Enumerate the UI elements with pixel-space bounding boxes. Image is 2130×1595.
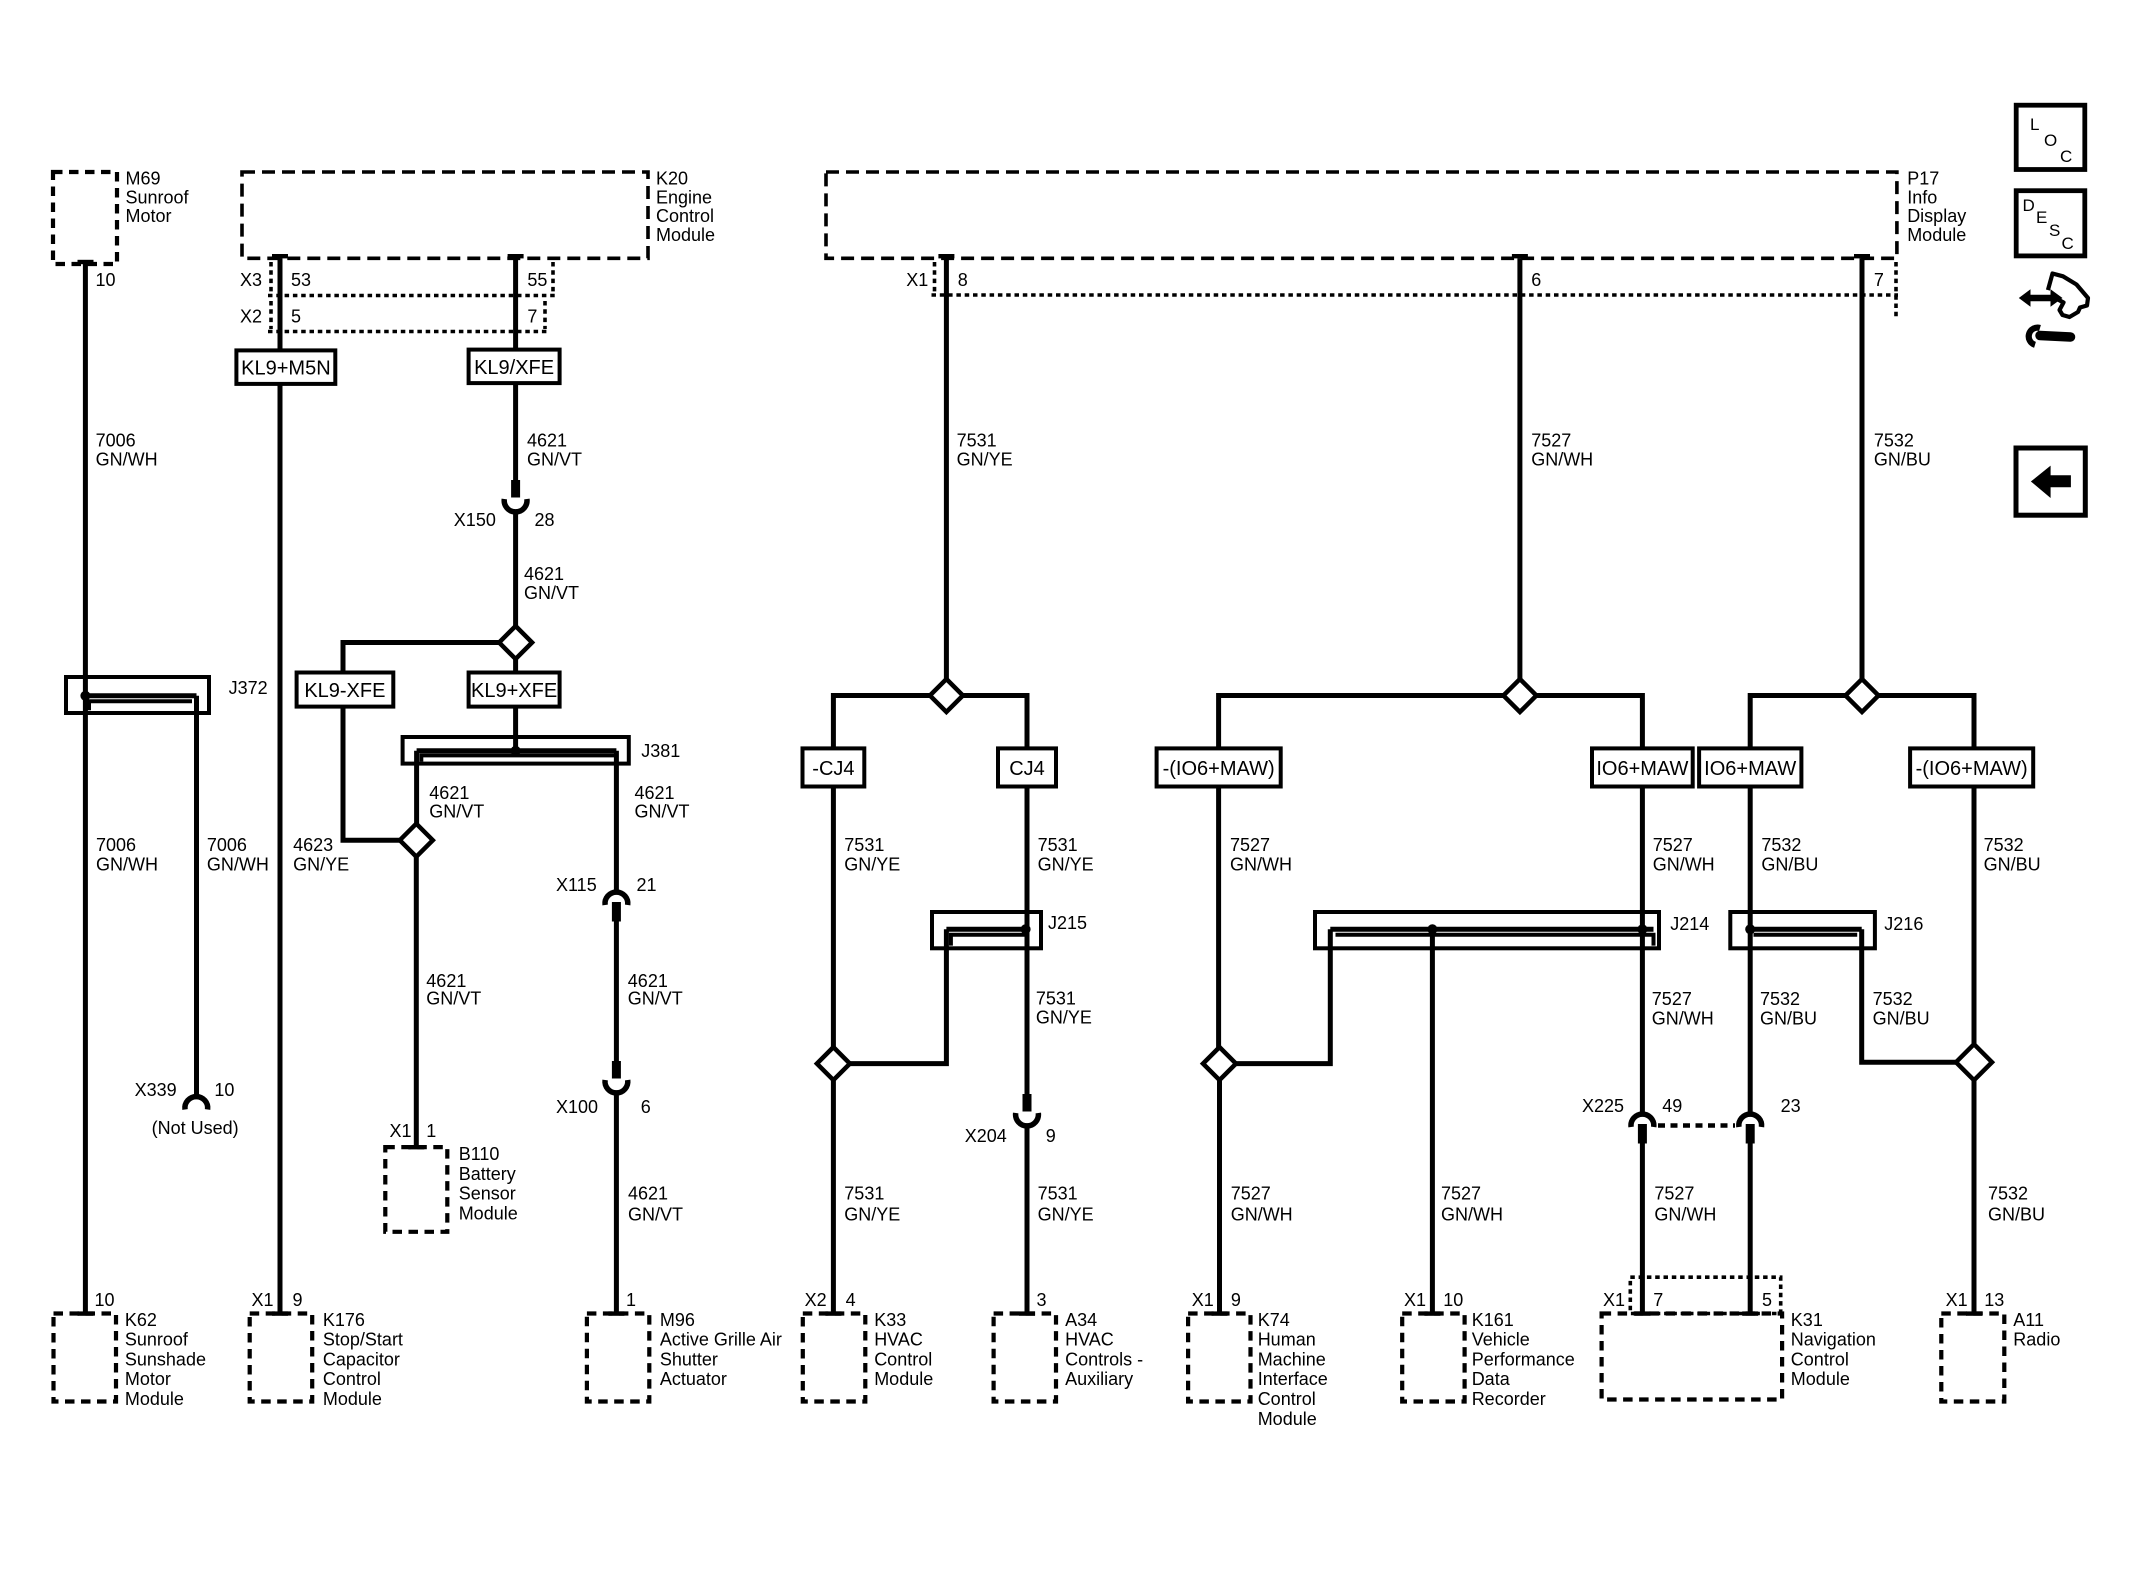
wire label 7531 GN/YE (below J215)	[1036, 989, 1092, 1028]
junction diamond above A11	[1956, 1044, 1992, 1080]
svg-text:Sunroof: Sunroof	[126, 187, 190, 207]
svg-text:6: 6	[1531, 270, 1541, 290]
wire label 7527 GN/WH (left)	[1230, 835, 1292, 875]
pin X1 7 of K31	[1603, 1290, 1663, 1310]
svg-text:GN/BU: GN/BU	[1874, 450, 1931, 470]
svg-text:4623: 4623	[293, 835, 333, 855]
wire label 7531 GN/YE (to K33)	[844, 1184, 900, 1225]
svg-text:7532: 7532	[1760, 989, 1800, 1009]
svg-text:GN/VT: GN/VT	[429, 802, 484, 822]
splice connector J372	[66, 677, 268, 713]
svg-text:Battery: Battery	[459, 1164, 516, 1184]
svg-text:KL9+XFE: KL9+XFE	[471, 680, 557, 702]
svg-text:K161: K161	[1472, 1310, 1514, 1330]
svg-text:K176: K176	[323, 1310, 365, 1330]
svg-text:B110: B110	[459, 1144, 500, 1164]
wire label 7006 GN/WH (upper)	[96, 431, 158, 470]
svg-text:K31: K31	[1791, 1310, 1823, 1330]
svg-text:X100: X100	[556, 1097, 598, 1117]
wire label 7531 GN/YE (right)	[1038, 835, 1094, 875]
svg-text:7532: 7532	[1873, 989, 1913, 1009]
connector X225 pin 23	[1739, 1096, 1801, 1144]
net label KL9+XFE	[469, 673, 560, 707]
svg-text:1: 1	[426, 1121, 436, 1141]
connector X115 pin 21	[556, 875, 657, 922]
svg-text:49: 49	[1662, 1096, 1682, 1116]
svg-text:13: 13	[1984, 1290, 2004, 1310]
svg-text:4: 4	[846, 1290, 856, 1310]
svg-text:Actuator: Actuator	[660, 1369, 727, 1389]
wire 4621 GN/VT from X100 to M96	[614, 1092, 619, 1314]
svg-text:Shutter: Shutter	[660, 1349, 718, 1369]
net label KL9+M5N	[236, 350, 335, 384]
module P17 Info Display Module	[826, 169, 1966, 259]
wire label 7532 GN/BU (pin 7)	[1874, 431, 1931, 470]
module M69 Sunroof Motor	[53, 169, 190, 265]
wire label 7532 GN/BU (below J216 left)	[1760, 989, 1817, 1029]
svg-text:Stop/Start: Stop/Start	[323, 1330, 403, 1350]
wire label 7532 GN/BU (above J216)	[1761, 835, 1818, 875]
svg-text:Control: Control	[1791, 1349, 1849, 1369]
svg-text:M69: M69	[126, 169, 161, 189]
svg-text:Motor: Motor	[126, 206, 172, 226]
connector X1 dotted outline on P17	[932, 262, 1899, 318]
icon LOC button	[2016, 105, 2085, 169]
icon DESC button	[2016, 191, 2085, 256]
wire from 7531 diamond to -CJ4	[833, 696, 930, 749]
svg-text:7532: 7532	[1874, 431, 1914, 451]
wire from K20 pin 55 to net KL9/XFE	[513, 258, 518, 349]
svg-text:X3: X3	[240, 270, 262, 290]
module K74 Human Machine Interface Control Module	[1188, 1310, 1328, 1429]
net label IO6+MAW left	[1592, 748, 1693, 786]
wire label 7532 GN/BU (J216 exit)	[1873, 989, 1930, 1029]
svg-text:A11: A11	[2013, 1310, 2044, 1330]
svg-text:1: 1	[626, 1290, 636, 1310]
svg-text:X1: X1	[1192, 1290, 1214, 1310]
wire label 7531 GN/YE (left)	[844, 835, 900, 875]
pin X1 8 of P17	[906, 270, 967, 290]
svg-text:L: L	[2030, 115, 2039, 134]
splice connector J215	[932, 912, 1087, 948]
svg-text:J214: J214	[1670, 914, 1709, 934]
svg-text:X150: X150	[454, 510, 496, 530]
svg-text:Auxiliary: Auxiliary	[1065, 1369, 1133, 1389]
svg-text:K74: K74	[1258, 1310, 1290, 1330]
svg-text:GN/WH: GN/WH	[1652, 1009, 1714, 1029]
svg-text:Human: Human	[1258, 1330, 1316, 1350]
wire 7532 GN/BU from P17 pin 7 to diamond	[1860, 258, 1865, 680]
svg-text:J381: J381	[641, 741, 680, 761]
wire label 4621 GN/VT (to M96)	[628, 1184, 683, 1225]
connector X150 pin 28	[454, 480, 555, 530]
wire 4621 GN/VT from X115 to X100	[614, 921, 619, 1063]
wire label 7532 GN/BU (right)	[1984, 835, 2041, 875]
svg-text:GN/WH: GN/WH	[96, 855, 158, 875]
wire label 7527 GN/WH (to K31)	[1654, 1184, 1716, 1225]
wire from 7531 diamond to CJ4	[963, 696, 1027, 749]
svg-text:7006: 7006	[207, 835, 247, 855]
connector X339 pin 10 (not used)	[135, 1080, 239, 1138]
wire 7527 GN/WH from diamond to K74	[1217, 1080, 1222, 1313]
connector X204 pin 9	[965, 1094, 1056, 1146]
pin X3 53 of K20	[240, 270, 311, 290]
svg-text:X204: X204	[965, 1126, 1007, 1146]
icon connector-repair (double arrow, plug outline, wrench)	[2019, 274, 2088, 345]
svg-text:Display: Display	[1907, 206, 1966, 226]
svg-text:Machine: Machine	[1258, 1349, 1326, 1369]
pin X2 5 of K20	[240, 307, 301, 327]
svg-text:55: 55	[527, 270, 547, 290]
svg-text:Module: Module	[125, 1389, 184, 1409]
wire 7531 GN/YE from CJ4 through J215 to X204	[1025, 787, 1030, 1096]
svg-text:J216: J216	[1884, 914, 1923, 934]
wire label 4621 GN/VT (left of J381)	[429, 783, 484, 822]
splice connector J214	[1315, 912, 1709, 948]
module K62 Sunroof Sunshade Motor Module	[54, 1310, 206, 1409]
svg-text:Sunshade: Sunshade	[125, 1349, 206, 1369]
svg-text:7006: 7006	[96, 835, 136, 855]
svg-text:GN/VT: GN/VT	[628, 989, 683, 1009]
svg-text:GN/VT: GN/VT	[628, 1204, 683, 1224]
wire from 7527 diamond to IO6+MAW	[1536, 696, 1642, 749]
svg-text:Sensor: Sensor	[459, 1184, 516, 1204]
wire label 7527 GN/WH (below IO6+MAW)	[1653, 835, 1715, 875]
wire label 4621 GN/VT	[524, 564, 579, 603]
wire label 7527 GN/WH (to K161)	[1441, 1184, 1503, 1225]
module K31 Navigation Control Module	[1602, 1310, 1876, 1400]
wire from K20 pin 53 to net KL9+M5N	[278, 258, 283, 350]
svg-text:J372: J372	[229, 678, 268, 698]
wire 7006 GN/WH from M69 pin 10 down through J372 to K62	[83, 264, 88, 1314]
wire from diamond to KL9+XFE	[513, 659, 518, 673]
svg-text:Module: Module	[323, 1389, 382, 1409]
svg-text:S: S	[2049, 221, 2060, 240]
svg-text:Performance: Performance	[1472, 1349, 1575, 1369]
svg-text:GN/VT: GN/VT	[524, 583, 579, 603]
svg-text:6: 6	[641, 1097, 651, 1117]
module K20 Engine Control Module	[242, 169, 715, 259]
svg-text:7532: 7532	[1988, 1184, 2028, 1204]
svg-text:Controls -: Controls -	[1065, 1349, 1143, 1369]
wire 4621 GN/VT from J381 right to X115	[614, 751, 619, 891]
svg-text:Navigation: Navigation	[1791, 1330, 1876, 1350]
svg-text:(Not Used): (Not Used)	[152, 1118, 239, 1138]
net label CJ4	[998, 748, 1056, 786]
svg-text:21: 21	[637, 875, 657, 895]
svg-text:GN/WH: GN/WH	[1231, 1204, 1293, 1224]
svg-text:Module: Module	[1258, 1409, 1317, 1429]
junction diamond on 7532 circuit	[1846, 679, 1879, 712]
junction diamond on 7527 circuit	[1503, 679, 1536, 712]
svg-text:GN/YE: GN/YE	[844, 1204, 900, 1224]
svg-text:4621: 4621	[628, 1184, 668, 1204]
wire from J215 to diamond	[850, 929, 946, 1063]
svg-text:X1: X1	[906, 270, 928, 290]
svg-text:GN/WH: GN/WH	[96, 450, 158, 470]
svg-text:KL9+M5N: KL9+M5N	[241, 358, 331, 380]
module K33 HVAC Control Module	[803, 1310, 933, 1402]
module K161 Vehicle Performance Data Recorder	[1402, 1310, 1575, 1409]
svg-text:7527: 7527	[1653, 835, 1693, 855]
wire 7531 GN/YE from P17 pin 8 to diamond	[944, 258, 949, 680]
svg-text:Sunroof: Sunroof	[125, 1330, 189, 1350]
svg-text:GN/YE: GN/YE	[844, 855, 900, 875]
splice connector J381	[403, 737, 681, 764]
svg-text:Active Grille Air: Active Grille Air	[660, 1330, 782, 1350]
svg-text:HVAC: HVAC	[1065, 1330, 1114, 1350]
svg-text:GN/VT: GN/VT	[426, 989, 481, 1009]
svg-text:10: 10	[1443, 1290, 1463, 1310]
wire 4621 GN/VT from J381 left to diamond	[414, 751, 419, 825]
pin X1 10 of K161	[1404, 1290, 1463, 1310]
wire 7532 GN/BU from X225 pin 23 to K31	[1748, 1143, 1753, 1314]
svg-text:X225: X225	[1582, 1096, 1624, 1116]
svg-text:GN/BU: GN/BU	[1760, 1009, 1817, 1029]
svg-text:7531: 7531	[1036, 989, 1076, 1009]
module A11 Radio	[1941, 1310, 2060, 1402]
svg-text:7531: 7531	[844, 1184, 884, 1204]
wire from KL9+M5N to K176	[278, 384, 283, 1314]
svg-text:Module: Module	[459, 1203, 518, 1223]
wire 7531 GN/YE from -CJ4 to diamond	[831, 787, 836, 1049]
svg-text:7: 7	[527, 307, 537, 327]
net label -(IO6+MAW) right	[1910, 748, 2033, 786]
svg-text:4621: 4621	[429, 783, 469, 803]
wire from 7532 diamond to -(IO6+MAW) right	[1879, 696, 1975, 749]
splice connector J216	[1730, 912, 1923, 948]
wire 7532 GN/BU from IO6+MAW through J216 to X225 pin 23	[1748, 787, 1753, 1114]
wire 4621 GN/VT from diamond to B110	[414, 857, 419, 1147]
svg-text:Interface: Interface	[1258, 1369, 1328, 1389]
svg-text:X115: X115	[556, 875, 597, 895]
svg-text:GN/WH: GN/WH	[1441, 1204, 1503, 1224]
svg-text:C: C	[2062, 234, 2074, 253]
svg-text:4621: 4621	[527, 431, 567, 451]
svg-text:CJ4: CJ4	[1009, 758, 1045, 780]
wire from J214 to diamond	[1236, 929, 1330, 1063]
wire 4621 GN/VT from X150 to diamond	[513, 511, 518, 627]
wire label 4621 GN/VT (to B110)	[426, 971, 481, 1009]
wire from 7532 diamond to IO6+MAW right	[1750, 696, 1845, 749]
svg-text:9: 9	[293, 1290, 303, 1310]
wire label 7527 GN/WH (above X225)	[1652, 989, 1714, 1029]
svg-text:Radio: Radio	[2013, 1330, 2060, 1350]
svg-text:GN/BU: GN/BU	[1988, 1204, 2045, 1224]
wire 7527 GN/WH from IO6+MAW through J214 to X225 pin 49	[1640, 787, 1645, 1114]
svg-text:Data: Data	[1472, 1369, 1511, 1389]
svg-text:7527: 7527	[1652, 989, 1692, 1009]
svg-text:Capacitor: Capacitor	[323, 1349, 400, 1369]
svg-text:5: 5	[291, 307, 301, 327]
icon back arrow button	[2016, 448, 2085, 515]
svg-text:-(IO6+MAW): -(IO6+MAW)	[1916, 758, 2028, 780]
svg-text:28: 28	[535, 510, 555, 530]
svg-text:X339: X339	[135, 1080, 177, 1100]
svg-text:A34: A34	[1065, 1310, 1097, 1330]
svg-text:Recorder: Recorder	[1472, 1389, 1546, 1409]
svg-text:K62: K62	[125, 1310, 157, 1330]
net label KL9-XFE	[297, 673, 394, 707]
svg-text:Vehicle: Vehicle	[1472, 1330, 1530, 1350]
svg-text:K20: K20	[656, 169, 688, 189]
wire 4623 GN/YE from KL9-XFE to diamond	[343, 707, 400, 841]
svg-text:GN/WH: GN/WH	[1230, 855, 1292, 875]
connector X100 pin 6	[556, 1061, 651, 1117]
wire from 7527 diamond to -(IO6+MAW)	[1219, 696, 1504, 749]
module B110 Battery Sensor Module	[385, 1144, 517, 1232]
junction diamond above K74	[1203, 1047, 1236, 1080]
wire 7527 GN/WH from -(IO6+MAW) to diamond	[1216, 787, 1221, 1049]
svg-text:8: 8	[958, 270, 968, 290]
net label -(IO6+MAW) left	[1157, 748, 1281, 786]
svg-text:X1: X1	[1404, 1290, 1426, 1310]
net label KL9/XFE	[469, 350, 560, 384]
svg-text:10: 10	[96, 270, 116, 290]
svg-text:X1: X1	[1603, 1290, 1625, 1310]
svg-text:Info: Info	[1907, 187, 1937, 207]
svg-text:53: 53	[291, 270, 311, 290]
connector X225 pin 49	[1582, 1096, 1682, 1144]
svg-text:7532: 7532	[1761, 835, 1801, 855]
svg-text:7006: 7006	[96, 431, 136, 451]
connector X2 dotted outline on K20	[268, 301, 548, 332]
wire label 4623 GN/YE	[293, 835, 349, 875]
svg-text:Module: Module	[1907, 225, 1966, 245]
wire label 7527 GN/WH (pin 6)	[1531, 431, 1593, 470]
svg-text:7531: 7531	[957, 431, 997, 451]
wire label 4621 GN/VT	[527, 431, 582, 470]
wire label 4621 GN/VT (right of J381)	[635, 783, 690, 822]
wire 7006 GN/WH from J372 to X339	[194, 696, 199, 1096]
svg-text:GN/WH: GN/WH	[1654, 1204, 1716, 1224]
wire 7527 GN/WH from P17 pin 6 to diamond	[1517, 258, 1522, 680]
svg-text:Control: Control	[1258, 1389, 1316, 1409]
svg-text:X1: X1	[252, 1290, 274, 1310]
wire label 7527 GN/WH (to K74)	[1231, 1184, 1293, 1225]
svg-text:5: 5	[1762, 1290, 1772, 1310]
svg-text:GN/BU: GN/BU	[1761, 855, 1818, 875]
svg-text:Module: Module	[656, 225, 715, 245]
svg-text:3: 3	[1037, 1290, 1047, 1310]
svg-text:GN/YE: GN/YE	[957, 450, 1013, 470]
pin X1 13 of A11	[1946, 1290, 2005, 1310]
svg-text:10: 10	[95, 1290, 115, 1310]
svg-text:10: 10	[214, 1080, 234, 1100]
svg-text:7527: 7527	[1441, 1184, 1481, 1204]
connector X1 dotted outline on K31	[1630, 1277, 1780, 1313]
wire 7532 GN/BU from -(IO6+MAW) to diamond	[1972, 787, 1977, 1046]
svg-text:4621: 4621	[524, 564, 564, 584]
svg-text:IO6+MAW: IO6+MAW	[1704, 758, 1796, 780]
svg-text:GN/BU: GN/BU	[1873, 1009, 1930, 1029]
svg-text:X1: X1	[1946, 1290, 1968, 1310]
svg-text:GN/YE: GN/YE	[293, 855, 349, 875]
svg-text:Control: Control	[656, 206, 714, 226]
svg-text:7531: 7531	[1038, 835, 1078, 855]
svg-text:GN/YE: GN/YE	[1036, 1008, 1092, 1028]
svg-text:KL9/XFE: KL9/XFE	[474, 357, 554, 379]
svg-text:HVAC: HVAC	[874, 1330, 923, 1350]
svg-text:9: 9	[1046, 1126, 1056, 1146]
svg-text:Module: Module	[874, 1369, 933, 1389]
svg-text:P17: P17	[1907, 169, 1939, 189]
connector X3 dotted outline on K20	[268, 262, 556, 296]
junction diamond on 7531 circuit	[930, 679, 963, 712]
wire 7531 GN/YE from diamond to K33	[831, 1080, 836, 1313]
wire 7527 GN/WH from J214 to K161	[1430, 929, 1435, 1313]
wire label 7006 GN/WH (left branch)	[96, 835, 158, 875]
svg-text:C: C	[2060, 147, 2072, 166]
svg-text:GN/YE: GN/YE	[1038, 1204, 1094, 1224]
svg-text:7527: 7527	[1531, 431, 1571, 451]
svg-text:X1: X1	[390, 1121, 412, 1141]
svg-text:M96: M96	[660, 1310, 695, 1330]
module M96 Active Grille Air Shutter Actuator	[587, 1310, 782, 1402]
junction diamond above K33	[817, 1047, 850, 1080]
svg-text:-(IO6+MAW): -(IO6+MAW)	[1163, 758, 1275, 780]
net label IO6+MAW right	[1699, 748, 1801, 786]
pin X2 4 of K33	[805, 1290, 856, 1310]
wire 7527 GN/WH from X225 pin 49 to K31	[1640, 1143, 1645, 1314]
wire 4621 GN/VT from KL9/XFE to X150	[513, 383, 518, 481]
svg-text:GN/WH: GN/WH	[1653, 855, 1715, 875]
pin X1 9 of K176	[252, 1290, 303, 1310]
module A34 HVAC Controls - Auxiliary	[994, 1310, 1144, 1402]
svg-text:GN/VT: GN/VT	[527, 450, 582, 470]
svg-text:GN/WH: GN/WH	[1531, 450, 1593, 470]
wire label 7531 GN/YE (pin 8)	[957, 431, 1013, 470]
svg-text:7527: 7527	[1654, 1184, 1694, 1204]
svg-text:7527: 7527	[1230, 835, 1270, 855]
svg-text:9: 9	[1231, 1290, 1241, 1310]
svg-text:Engine: Engine	[656, 187, 712, 207]
wire label 4621 GN/VT (X115 to X100)	[628, 971, 683, 1009]
wire from diamond to KL9-XFE	[343, 643, 499, 673]
svg-text:KL9-XFE: KL9-XFE	[304, 680, 385, 702]
pin X1 1 of B110	[390, 1121, 437, 1141]
svg-text:D: D	[2023, 196, 2035, 215]
dashed link between X225 pins	[1658, 1123, 1735, 1128]
wire 7532 GN/BU from diamond to A11	[1972, 1080, 1977, 1313]
net label -CJ4	[803, 748, 865, 786]
svg-text:GN/VT: GN/VT	[635, 802, 690, 822]
svg-text:GN/BU: GN/BU	[1984, 855, 2041, 875]
pin X1 9 of K74	[1192, 1290, 1241, 1310]
svg-text:Control: Control	[874, 1349, 932, 1369]
svg-text:7531: 7531	[844, 835, 884, 855]
svg-text:7531: 7531	[1038, 1184, 1078, 1204]
svg-text:Motor: Motor	[125, 1369, 171, 1389]
wire from KL9+XFE to splice J381	[513, 707, 518, 751]
svg-text:23: 23	[1781, 1096, 1801, 1116]
svg-text:7: 7	[1653, 1290, 1663, 1310]
svg-text:Control: Control	[323, 1369, 381, 1389]
svg-text:E: E	[2036, 208, 2047, 227]
svg-text:X2: X2	[240, 307, 262, 327]
svg-text:4621: 4621	[635, 783, 675, 803]
wire label 7531 GN/YE (to A34)	[1038, 1184, 1094, 1225]
junction diamond above KL9+XFE	[499, 626, 532, 659]
wire from J216 to diamond	[1862, 929, 1956, 1062]
svg-text:GN/WH: GN/WH	[207, 855, 269, 875]
svg-text:7532: 7532	[1984, 835, 2024, 855]
module K176 Stop/Start Capacitor Control Module	[250, 1310, 403, 1409]
junction diamond above B110	[400, 824, 433, 857]
svg-text:-CJ4: -CJ4	[812, 758, 854, 780]
wire label 7532 GN/BU (to A11)	[1988, 1184, 2045, 1225]
svg-text:7: 7	[1874, 270, 1884, 290]
